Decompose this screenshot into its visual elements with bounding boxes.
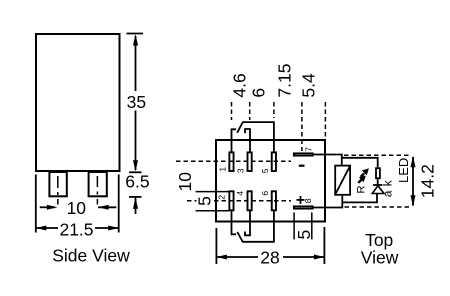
dashed line 14.2 bottom <box>345 206 411 208</box>
svg-text:21.5: 21.5 <box>59 219 93 239</box>
svg-text:Side View: Side View <box>52 245 130 265</box>
svg-text:a: a <box>381 190 395 197</box>
pin3 contact line <box>245 129 250 152</box>
vertical dashed reference line body right edge <box>324 102 326 138</box>
pin 2 bar <box>229 191 233 210</box>
right pin centerline <box>96 176 98 205</box>
svg-text:7: 7 <box>304 147 314 152</box>
vertical dashed reference line pin5 <box>273 102 275 118</box>
plus sign near pin 8 <box>297 196 305 204</box>
svg-text:4: 4 <box>235 191 245 196</box>
svg-text:2: 2 <box>217 195 227 200</box>
svg-text:35: 35 <box>127 92 146 112</box>
dashed line 14.2 top <box>344 154 411 156</box>
switch symbol bottom: pin2 common line with stub <box>232 211 237 234</box>
svg-text:1: 1 <box>217 167 227 172</box>
resistor R <box>376 168 380 178</box>
dimension 10 (pin spacing) <box>40 198 117 218</box>
bottom row centerline (dashed) <box>187 200 197 202</box>
dimension 21.5 <box>36 175 119 240</box>
wire from pin 8 <box>314 196 343 208</box>
svg-text:6: 6 <box>260 191 270 196</box>
svg-text:14.2: 14.2 <box>418 164 438 198</box>
relay body outline (top view) <box>216 140 325 222</box>
wire resistor to diode <box>377 179 379 185</box>
pin 5 bar <box>272 152 276 171</box>
top row centerline (dashed) <box>176 160 291 162</box>
svg-text:6.5: 6.5 <box>125 171 149 191</box>
svg-text:7.15: 7.15 <box>275 64 295 98</box>
pin 4 bar <box>248 191 252 210</box>
svg-text:R: R <box>356 186 368 194</box>
vertical dashed reference line pin1 <box>231 102 233 120</box>
svg-text:4.6: 4.6 <box>229 73 249 97</box>
bottom rail to LED branch <box>342 194 377 203</box>
extension line pin2 bar top <box>196 191 229 193</box>
dimension 35 <box>127 34 147 172</box>
LED emission arrows <box>358 168 369 182</box>
LED diode: cathode bar <box>373 184 382 186</box>
pin 7 bar <box>294 153 313 155</box>
svg-text:5: 5 <box>260 168 270 173</box>
svg-text:28: 28 <box>260 248 279 268</box>
left pin centerline <box>57 176 59 205</box>
relay body (side view) <box>36 34 120 171</box>
pin6 contact line <box>242 211 274 242</box>
svg-text:5: 5 <box>294 230 314 240</box>
pin 6 bar <box>272 191 276 210</box>
svg-text:5: 5 <box>194 196 214 206</box>
extension line pin2 bar bottom <box>196 210 229 212</box>
right terminal pin (side view) <box>89 172 107 196</box>
pin 1 bar <box>229 152 233 171</box>
LED diode: triangle <box>372 186 384 194</box>
switch arm top <box>237 123 242 133</box>
switch arm bottom <box>237 232 243 242</box>
switch symbol top: pin1 common line with stub <box>232 129 237 151</box>
minus sign near pin 7 <box>299 165 305 167</box>
pin 8 bar <box>294 206 313 208</box>
relay coil <box>335 165 350 195</box>
dimension 14.2 arrow line <box>411 156 416 207</box>
svg-text:View: View <box>361 248 399 268</box>
svg-text:10: 10 <box>67 198 87 218</box>
pin5 contact line <box>242 122 274 151</box>
extension line pin8 bar right <box>311 212 313 239</box>
left terminal pin (side view) <box>49 172 66 196</box>
svg-text:6: 6 <box>248 88 268 98</box>
vertical dashed reference line pin7 <box>301 102 303 151</box>
dimension 6.5 <box>125 171 149 214</box>
pin 3 bar <box>248 152 252 171</box>
svg-text:3: 3 <box>236 168 246 173</box>
dimension 28 <box>216 227 324 268</box>
svg-text:k: k <box>381 179 395 186</box>
top rail to LED branch <box>342 158 378 168</box>
extension line pin8 bar left <box>293 212 295 239</box>
vertical dashed reference line pin3 <box>249 102 251 120</box>
svg-text:10: 10 <box>175 172 195 192</box>
pin4 contact line <box>245 211 250 235</box>
wire from pin 7 <box>314 155 342 165</box>
svg-text:LED: LED <box>396 158 411 183</box>
svg-text:5.4: 5.4 <box>299 73 319 98</box>
